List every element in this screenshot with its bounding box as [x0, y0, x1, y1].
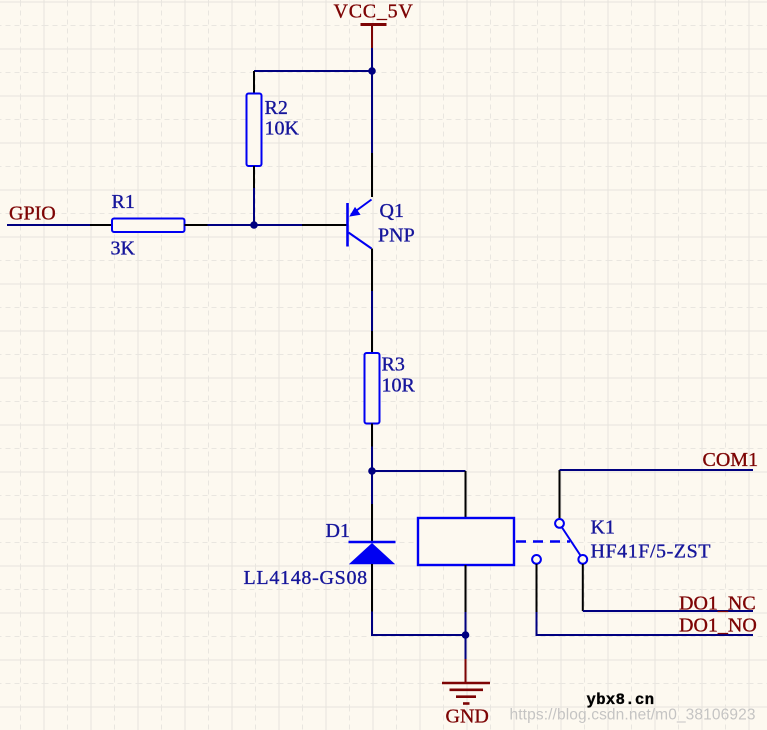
svg-text:VCC_5V: VCC_5V	[334, 1, 414, 23]
wire junction down to D1	[371, 471, 373, 504]
wire R2 to base net	[253, 188, 255, 226]
wire R1 to junction	[208, 224, 303, 226]
svg-text:10K: 10K	[265, 118, 300, 140]
relay K1 common contact	[555, 470, 564, 528]
wire GPIO lead	[7, 224, 90, 226]
svg-text:PNP: PNP	[378, 225, 415, 247]
junction R1/R2/base	[250, 221, 258, 229]
svg-text:GPIO: GPIO	[9, 203, 56, 225]
relay switch arm	[562, 528, 581, 556]
wire VCC rail to R2	[254, 70, 372, 72]
wire base pin	[302, 224, 347, 226]
svg-text:https://blog.csdn.net/m0_38106: https://blog.csdn.net/m0_38106923	[510, 707, 756, 724]
wire collector to R3	[371, 291, 373, 331]
relay K1 NC contact	[578, 555, 587, 611]
wire junction to relay coil	[372, 470, 466, 472]
diode D1	[349, 504, 396, 612]
svg-text:DO1_NO: DO1_NO	[679, 615, 757, 637]
svg-text:D1: D1	[326, 520, 350, 542]
svg-text:Q1: Q1	[380, 200, 404, 222]
wire D1 to ground rail	[372, 612, 466, 636]
svg-text:10R: 10R	[382, 375, 416, 397]
wire VCC junction to emitter	[371, 71, 373, 153]
svg-text:3K: 3K	[111, 238, 136, 260]
wire junction to ground	[465, 635, 467, 660]
relay K1 NO contact	[532, 555, 541, 612]
svg-text:COM1: COM1	[703, 449, 759, 471]
relay actuator dashed link	[516, 540, 570, 542]
resistor R2	[247, 71, 262, 188]
svg-text:R2: R2	[265, 97, 288, 119]
svg-text:K1: K1	[591, 517, 615, 539]
svg-text:R1: R1	[112, 191, 135, 213]
wire relay coil to ground junction	[465, 612, 467, 635]
wire net DO1_NC	[583, 610, 753, 612]
power symbol VCC_5V	[361, 25, 387, 49]
junction at VCC rail	[368, 67, 376, 75]
transistor Q1	[348, 153, 373, 291]
wire R3 to junction	[371, 447, 373, 472]
svg-text:LL4148-GS08: LL4148-GS08	[244, 567, 368, 589]
junction R3/D1/relay	[368, 467, 376, 475]
wire net DO1_NO	[537, 612, 754, 635]
wire net COM1	[560, 469, 754, 471]
ground symbol GND	[442, 659, 490, 704]
svg-text:R3: R3	[382, 354, 405, 376]
svg-text:HF41F/5-ZST: HF41F/5-ZST	[591, 541, 712, 563]
resistor R1	[90, 219, 208, 233]
svg-text:GND: GND	[446, 706, 489, 728]
svg-text:DO1_NC: DO1_NC	[679, 593, 756, 615]
wire VCC vertical	[371, 48, 373, 72]
junction ground rail	[462, 631, 470, 639]
relay K1 coil	[418, 471, 514, 612]
resistor R3	[365, 331, 380, 447]
